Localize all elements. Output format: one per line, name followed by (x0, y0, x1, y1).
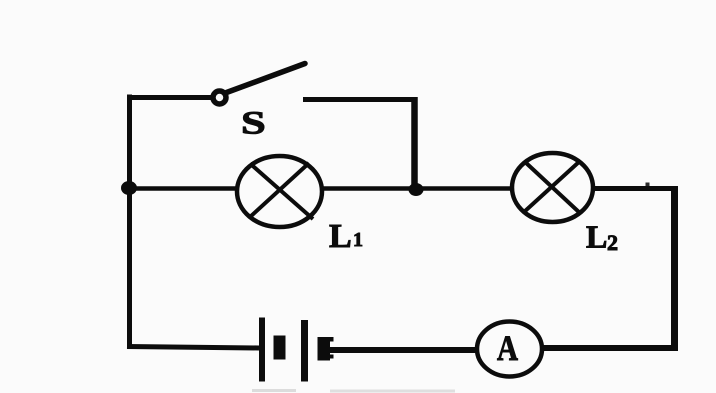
wire middle segment between L1 and L2 (321, 186, 512, 191)
svg-text:1: 1 (353, 229, 363, 251)
stray tick above middle wire near right corner (646, 183, 650, 187)
battery cell 2 short plate (positive terminal nub) (318, 337, 334, 361)
battery cell 1 long plate (259, 318, 265, 382)
node junction dot at top-right branch (409, 183, 424, 196)
wire left vertical (127, 95, 132, 350)
switch S pivot circle (213, 91, 226, 104)
label L1 (329, 218, 363, 255)
wire bottom from battery to left corner (127, 347, 259, 349)
svg-text:A: A (497, 328, 518, 368)
lamp L1 (237, 156, 322, 227)
svg-text:L: L (586, 219, 607, 255)
wire from switch gap to top-right corner (303, 97, 417, 102)
wire right vertical (671, 186, 678, 350)
svg-text:2: 2 (607, 230, 618, 255)
lamp L2 (512, 153, 593, 222)
wire top-right corner down to middle node (411, 97, 418, 189)
node junction dot at left wire (121, 181, 137, 195)
wire bottom from right corner to ammeter (541, 345, 678, 351)
wire middle left segment (127, 186, 238, 191)
cut-off caption remnant below battery (252, 389, 455, 393)
wire top horizontal from left corner to switch pivot (127, 95, 213, 100)
svg-text:S: S (241, 105, 266, 141)
ammeter A (477, 322, 542, 377)
wire from ammeter to battery (329, 347, 478, 353)
switch S lever arm (227, 64, 306, 93)
label L2 (586, 219, 618, 256)
svg-text:L: L (329, 218, 352, 255)
battery cell 2 long plate (301, 320, 308, 382)
wire middle segment from L2 to right corner (593, 186, 678, 191)
battery cell 1 short plate (274, 336, 286, 360)
